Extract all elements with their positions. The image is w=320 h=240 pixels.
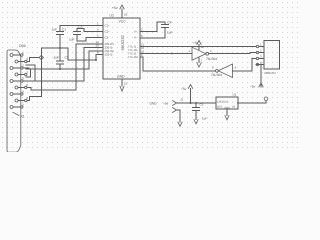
svg-text:C1+: C1+: [105, 24, 111, 28]
wire U3B input from SV1 pin3: [233, 59, 256, 71]
ground U3A: [197, 63, 202, 68]
op-amp U3A 74LS04 triangle: [192, 47, 206, 60]
capacitor C3: [74, 29, 81, 38]
svg-text:GND: GND: [117, 75, 125, 79]
svg-text:74LS04: 74LS04: [206, 57, 217, 61]
+5v supply arrow power: [188, 85, 192, 89]
wire DB9 pin2 long: [24, 51, 104, 69]
wire J1 pin1 to rail: [177, 102, 217, 104]
connector X1 DB9 body: [7, 50, 21, 152]
U2 pin16 VCC stub: [121, 9, 123, 18]
ground C5: [194, 120, 198, 124]
svg-text:1uF: 1uF: [69, 37, 75, 41]
capacitor C2: [57, 48, 64, 69]
wire C3 bottom to U2 pin5: [77, 38, 103, 42]
svg-text:IN: IN: [233, 106, 236, 109]
svg-text:74LS04: 74LS04: [211, 73, 222, 77]
junction at SV1 pin4: [260, 64, 262, 66]
regulator U1 box: [216, 97, 238, 109]
svg-text:VCC: VCC: [119, 20, 127, 24]
svg-text:15: 15: [124, 82, 128, 86]
U3A power stub: [198, 45, 200, 50]
svg-text:U1: U1: [233, 93, 237, 97]
+5v supply stem: [190, 89, 192, 104]
+5v supply arrow U2: [120, 5, 124, 9]
IC U2 MAX232 box: [103, 18, 140, 79]
svg-text:DB9: DB9: [19, 44, 26, 48]
connector J1 pin chevrons: [173, 101, 177, 106]
svg-text:V-: V-: [134, 36, 137, 40]
svg-text:MOD-IN: MOD-IN: [265, 71, 276, 75]
wire J1 pin2 to gnd: [177, 110, 181, 122]
X1 pin circles: [10, 54, 13, 57]
SV1 pin circles: [256, 45, 258, 47]
junction at C2 bottom: [59, 68, 61, 70]
svg-text:C4: C4: [168, 21, 172, 25]
node pad circle: [264, 97, 268, 101]
junction dots: [59, 47, 262, 104]
wire U2 pin6 V-: [140, 37, 165, 39]
U1 gnd stub: [226, 109, 228, 116]
svg-text:J1: J1: [180, 98, 184, 102]
svg-text:GND: GND: [150, 101, 158, 105]
+5v supply arrow U3A: [197, 41, 201, 45]
svg-text:GND: GND: [225, 107, 231, 110]
wire DB9 pin3: [24, 48, 104, 82]
svg-text:232-I2: 232-I2: [105, 53, 113, 57]
U2 pin15 GND stub: [121, 79, 123, 86]
U1 right pin: [238, 102, 244, 104]
+5v supply arrow SV1: [259, 83, 263, 87]
svg-text:C2-: C2-: [105, 36, 110, 40]
X1 refdes tick: [13, 112, 19, 115]
svg-text:MAX232: MAX232: [120, 34, 125, 50]
wire loop inner: [26, 69, 31, 77]
ground J1: [178, 122, 182, 126]
svg-text:1uF: 1uF: [202, 117, 207, 121]
svg-text:+5v: +5v: [112, 6, 118, 10]
wire U3A output to SV1 pin2: [209, 53, 256, 54]
svg-text:+5v: +5v: [181, 87, 187, 91]
svg-text:U2: U2: [110, 14, 114, 18]
svg-text:C3: C3: [78, 25, 82, 29]
svg-text:1uF: 1uF: [52, 28, 58, 32]
wire C3 top to U2 pin4: [77, 29, 103, 32]
junction at riser: [95, 59, 97, 61]
svg-text:C2: C2: [65, 55, 69, 59]
svg-text:+5v: +5v: [250, 85, 256, 89]
svg-text:16: 16: [124, 13, 128, 17]
wire U2 pin9 to U3B output: [140, 57, 216, 71]
wire U2 pin2 V+ to C4: [140, 22, 165, 32]
ground U1: [225, 116, 229, 120]
text labels: [19, 6, 128, 119]
svg-text:C5: C5: [200, 103, 204, 107]
svg-text:+5v: +5v: [193, 41, 199, 45]
U3A gnd stub: [198, 58, 200, 63]
wire U2 pin11 to SV1 pin1: [140, 46, 256, 48]
wire DB9 pin9 to riser: [27, 97, 41, 101]
svg-text:LM78L05: LM78L05: [218, 101, 229, 104]
junction at +5v stem: [190, 102, 192, 104]
wire regulator out rail: [238, 101, 267, 103]
svg-text:C1: C1: [62, 28, 66, 32]
svg-text:1uF: 1uF: [167, 31, 173, 35]
U1 left pin: [210, 102, 216, 104]
svg-text:1uF: 1uF: [54, 55, 60, 59]
capacitor C1: [57, 26, 64, 49]
svg-text:14: 14: [201, 45, 205, 49]
svg-text:V+: V+: [134, 30, 138, 34]
SV1 pin leads: [259, 46, 264, 48]
capacitor C5: [193, 103, 200, 120]
wire C1 to U2 pin1: [60, 25, 103, 27]
connector X1 pin leads: [13, 54, 20, 56]
wire loop outer: [26, 65, 35, 81]
capacitor C4: [162, 22, 169, 38]
wire U2 pin10 to U3A input: [140, 53, 192, 55]
X1 pin end circles: [21, 54, 23, 56]
svg-text:OUT: OUT: [217, 106, 223, 109]
svg-text:+5v: +5v: [163, 101, 169, 105]
connector SV1 box: [264, 41, 280, 70]
junction on gate input wire: [171, 53, 173, 55]
svg-text:TTL-O2: TTL-O2: [128, 55, 138, 59]
wire SV1 pin4 to +5v: [256, 65, 261, 87]
ground U2: [120, 86, 124, 91]
svg-text:C2+: C2+: [105, 30, 111, 34]
junction at C1/C2: [59, 47, 61, 49]
op-amp U3B 74LS04 triangle: [218, 64, 232, 78]
svg-text:X1: X1: [21, 115, 25, 119]
wire DB9 pin8: [28, 44, 104, 90]
wire DB9 pin6 to rail: [27, 48, 103, 97]
node junction diamond: [39, 55, 43, 59]
junction at C5 top: [195, 102, 197, 104]
